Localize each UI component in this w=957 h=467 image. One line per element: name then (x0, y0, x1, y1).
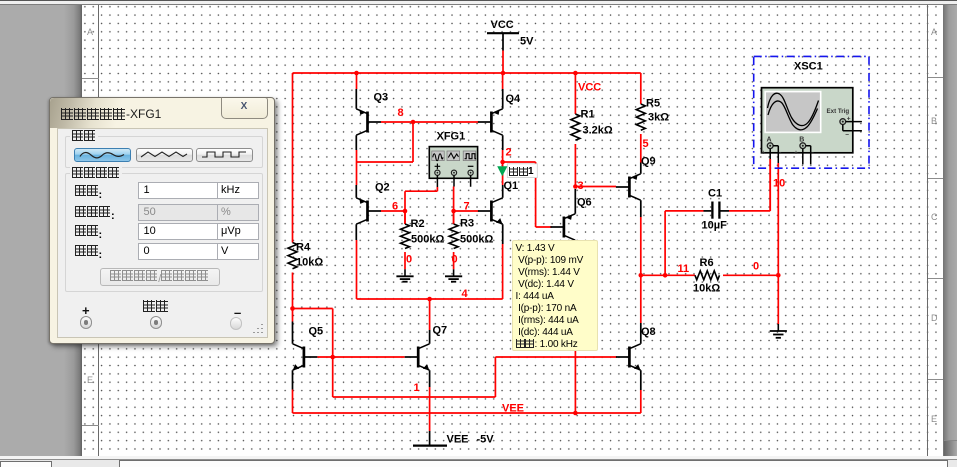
svg-text:+: + (794, 151, 798, 157)
function generator dialog XFG1 (49, 97, 275, 344)
wire R2 to ground (404, 252, 406, 269)
svg-text:XSC1: XSC1 (794, 61, 823, 73)
ground R2 (396, 269, 413, 281)
capacitor C1 (702, 188, 730, 232)
ground node 0 right (770, 324, 787, 338)
transistor Q5 (293, 344, 318, 370)
wire scope A- to ground net (777, 163, 779, 324)
right grey canvas (943, 5, 957, 457)
wire Q2 collector to node 4 (356, 240, 358, 299)
svg-text:3kΩ: 3kΩ (648, 112, 669, 124)
Q7 pins (429, 330, 431, 387)
wire node 6 to R2 (404, 211, 406, 224)
probe tooltip yellow box (512, 240, 598, 351)
transistor Q7 (405, 344, 430, 370)
wire Q3 emitter to rail (356, 73, 358, 89)
right margin ruler letters/ticks (931, 27, 937, 37)
wire R1 branch (574, 73, 576, 114)
bottom status strip (0, 456, 957, 459)
svg-text:-5V: -5V (477, 434, 495, 446)
svg-text:0: 0 (753, 261, 759, 273)
svg-text:VCC: VCC (578, 82, 601, 94)
wire node 7 to Q1 base (454, 210, 479, 212)
svg-text:10kΩ: 10kΩ (693, 283, 720, 295)
svg-text:1: 1 (414, 382, 420, 394)
sheet inner border lines (98, 5, 99, 456)
resistor R6 (693, 257, 720, 295)
svg-text:10µF: 10µF (702, 220, 728, 232)
wire Q4 emitter to rail (502, 73, 504, 89)
svg-text:A: A (767, 137, 772, 144)
wire R3 to ground (453, 252, 455, 269)
wire Q9 collector to node 11 (640, 217, 642, 275)
transistor Q3 (356, 109, 381, 135)
wire VCC top rail (293, 72, 641, 74)
wire Q5 emitter to VEE rail (292, 390, 294, 414)
wire Q4 collector to node 2 (502, 150, 504, 162)
svg-text:R4: R4 (296, 242, 311, 254)
svg-text:Q4: Q4 (506, 93, 522, 105)
transistor Q4 (478, 109, 503, 135)
VEE supply symbol (413, 431, 494, 446)
wire C1 to scope A (729, 159, 770, 211)
svg-text:5: 5 (643, 138, 649, 150)
scrollbar block bottom right (944, 440, 957, 456)
Q1 pins (502, 185, 504, 244)
wire R5 to Q9 emitter (640, 134, 642, 163)
junction dots (354, 71, 359, 76)
svg-text:Q5: Q5 (309, 326, 324, 338)
wire node 1 run (333, 357, 617, 397)
wire Q3 collector to Q2 emitter (356, 150, 358, 185)
svg-text:R6: R6 (700, 257, 714, 269)
svg-text:500kΩ: 500kΩ (411, 234, 444, 246)
resistor R2 (401, 218, 445, 249)
function generator XFG1 (429, 131, 477, 188)
Q6 pins (574, 189, 576, 250)
svg-text:C1: C1 (708, 188, 722, 200)
wire Q5 base to Q7 base (317, 356, 404, 358)
svg-text:VCC: VCC (491, 19, 514, 31)
svg-text:3: 3 (578, 180, 584, 192)
wire Q7 emitter to VEE symbol (429, 387, 431, 431)
svg-text:R2: R2 (411, 218, 425, 230)
svg-text:0: 0 (452, 254, 458, 266)
wire Q6 emitter to VEE rail (574, 250, 576, 413)
wire node 2 to Q6 base (503, 162, 552, 227)
svg-text:Q7: Q7 (433, 325, 448, 337)
svg-text:11: 11 (678, 263, 690, 275)
transistor Q9 (616, 174, 641, 200)
wire node 3 to Q9 base (575, 186, 616, 188)
svg-text:B: B (799, 137, 804, 144)
resistor R3 (449, 218, 493, 249)
svg-text:VEE: VEE (502, 403, 524, 415)
svg-text:5V: 5V (520, 36, 534, 48)
transistor Q6 (550, 214, 575, 240)
wire node 11 line left (641, 274, 695, 276)
wire VCC stem (502, 51, 504, 74)
ground R3 (445, 269, 462, 281)
Q3 pins (355, 89, 357, 150)
transistor Q1 (478, 198, 503, 224)
resistor R4 (288, 242, 323, 269)
svg-text:Q6: Q6 (577, 197, 592, 209)
svg-text:+: + (762, 151, 766, 157)
transistor Q2 (356, 198, 381, 224)
left margin ruler letters/ticks (87, 27, 93, 37)
wire node 8 branch (357, 122, 414, 162)
wire R4 to Q5 collector (292, 273, 294, 322)
svg-text:Q8: Q8 (641, 326, 656, 338)
Q8 pins (640, 323, 642, 390)
wire XFG1 common to node 7 (453, 187, 455, 225)
left grey canvas with shadow near sheet edge (0, 5, 82, 457)
wire XFG1 plus to node 6 (405, 187, 437, 224)
svg-text:VEE: VEE (447, 434, 469, 446)
wire node 4 to Q7 collector (429, 299, 431, 330)
svg-text:10: 10 (773, 178, 785, 190)
wire node 11 to Q8 collector (640, 275, 642, 323)
wire R6 to node 0 (723, 274, 778, 276)
wire node 2 to Q1 collector (502, 162, 504, 185)
VCC supply symbol (487, 19, 534, 51)
svg-text:Q1: Q1 (504, 180, 519, 192)
svg-text:R1: R1 (581, 109, 595, 121)
probe marker 探针1 (497, 164, 537, 178)
svg-text:3.2kΩ: 3.2kΩ (583, 125, 613, 137)
resistor R1 (571, 109, 613, 141)
svg-text:0: 0 (406, 254, 412, 266)
svg-text:Ext Trig: Ext Trig (827, 108, 850, 115)
wire left rail upper (292, 73, 294, 243)
wire Q2 base to node 6 (381, 210, 405, 212)
svg-text:−: − (845, 132, 849, 139)
oscilloscope XSC1 body (762, 88, 862, 165)
Q5 pins (292, 322, 294, 390)
Q9 pins (640, 163, 642, 218)
wire R4 branch to base node (293, 309, 333, 398)
svg-text:Q3: Q3 (374, 92, 389, 104)
Q4 pins (502, 89, 504, 150)
svg-text:4: 4 (462, 288, 469, 300)
svg-text:R5: R5 (646, 98, 660, 110)
wire R1 to node 3 (574, 144, 576, 187)
wire node 8 base line (381, 121, 479, 123)
svg-text:Q2: Q2 (375, 182, 390, 194)
resistor R5 (636, 98, 669, 131)
svg-text:R3: R3 (460, 218, 474, 230)
wire node 4 run (357, 244, 503, 299)
transistor Q8 (616, 344, 641, 370)
wire node 11 to C1 (665, 211, 703, 275)
top window chrome (0, 0, 957, 1)
svg-text:2: 2 (506, 147, 512, 159)
svg-text:10kΩ: 10kΩ (296, 257, 323, 269)
wire Q8 emitter drop (640, 390, 642, 413)
wire VEE bottom rail (293, 412, 641, 414)
svg-text:Q9: Q9 (641, 156, 656, 168)
wire scope A+ red (769, 159, 771, 211)
wire R5 branch (640, 73, 642, 104)
oscilloscope XSC1 selection box (754, 56, 869, 168)
wire node 7 to R3 (453, 211, 455, 224)
svg-text:6: 6 (392, 201, 398, 213)
svg-text:8: 8 (398, 107, 404, 119)
svg-text:7: 7 (464, 201, 470, 213)
Q2 pins (355, 185, 357, 240)
svg-text:500kΩ: 500kΩ (460, 234, 493, 246)
svg-text:XFG1: XFG1 (437, 131, 466, 143)
probe label text (509, 167, 534, 178)
